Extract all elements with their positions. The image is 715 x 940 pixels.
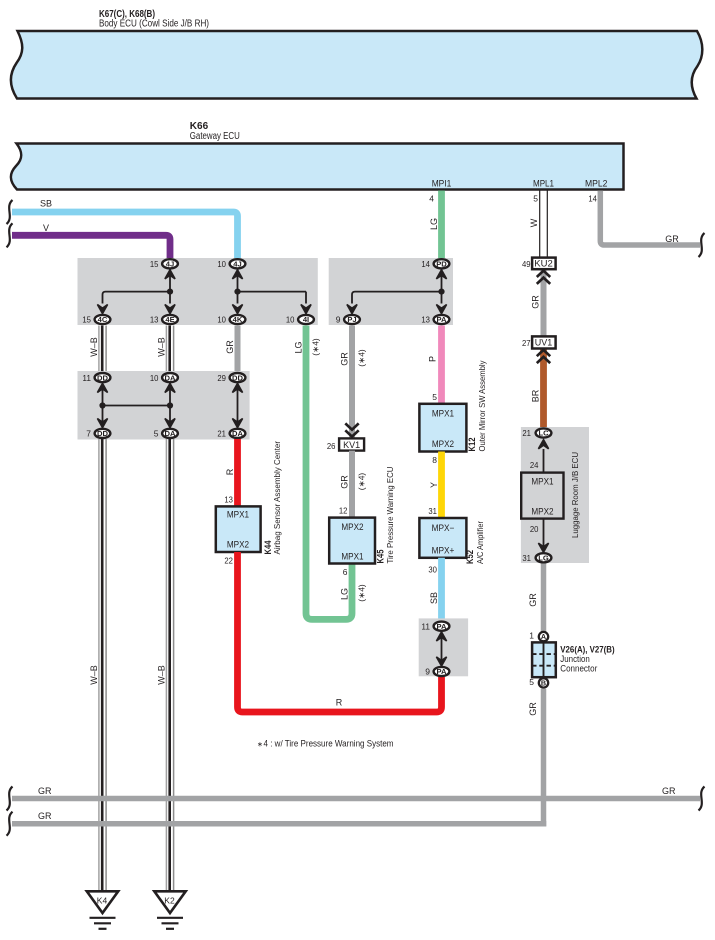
wire GR bus 2 — [7, 811, 547, 836]
svg-text:49: 49 — [522, 259, 531, 269]
wire V — [7, 223, 171, 259]
svg-text:9: 9 — [336, 315, 341, 325]
connector PA pin 13 — [421, 315, 449, 325]
svg-text:MPI1: MPI1 — [432, 178, 452, 188]
svg-text:GR: GR — [340, 352, 350, 366]
svg-text:PA: PA — [437, 667, 448, 676]
svg-text:LG: LG — [340, 588, 350, 600]
svg-text:4J: 4J — [166, 260, 174, 269]
svg-text:MPX2: MPX2 — [341, 522, 363, 532]
svg-text:V26(A), V27(B): V26(A), V27(B) — [560, 644, 614, 654]
wire SB (K52 to PA) — [438, 558, 445, 621]
svg-text:7: 7 — [86, 429, 91, 439]
ECU K45 Tire Pressure Warning ECU — [329, 467, 395, 564]
svg-text:1: 1 — [529, 631, 534, 641]
connector DA pin 5 — [154, 429, 178, 439]
svg-text:LG: LG — [294, 341, 304, 353]
svg-text:4 : w/ Tire Pressure Warning S: 4 : w/ Tire Pressure Warning System — [264, 738, 394, 748]
wire GR (4K to DD) — [235, 326, 241, 373]
wire W-B (DA to ground K2) — [166, 439, 173, 891]
svg-text:4J: 4J — [233, 260, 241, 269]
svg-text:5: 5 — [529, 677, 534, 687]
ECU K44 Airbag Sensor Assembly Center — [216, 441, 282, 555]
svg-text:Airbag Sensor Assembly Center: Airbag Sensor Assembly Center — [272, 441, 282, 555]
svg-text:13: 13 — [224, 495, 233, 505]
wire GR (PJ to KV1) — [349, 326, 355, 439]
svg-text:5: 5 — [154, 429, 159, 439]
svg-text:Luggage Room J/B ECU: Luggage Room J/B ECU — [570, 452, 580, 538]
svg-text:SB: SB — [40, 199, 52, 209]
svg-text:15: 15 — [150, 259, 159, 269]
svg-text:GR: GR — [340, 475, 350, 489]
svg-text:MPX2: MPX2 — [531, 507, 553, 517]
svg-text:12: 12 — [339, 506, 348, 516]
svg-text:15: 15 — [82, 315, 91, 325]
connector LG pin 31 — [522, 553, 551, 563]
svg-text:GR: GR — [662, 786, 676, 796]
svg-text:11: 11 — [82, 373, 91, 383]
svg-text:A/C Amplifier: A/C Amplifier — [475, 521, 485, 564]
svg-text:4C: 4C — [98, 315, 108, 324]
svg-text:W–B: W–B — [157, 665, 167, 685]
wire W-B (4C to DD) — [99, 326, 106, 373]
svg-text:31: 31 — [522, 553, 531, 563]
svg-text:31: 31 — [428, 506, 437, 516]
connector DD pin 29 — [217, 373, 245, 383]
svg-text:5: 5 — [432, 392, 437, 402]
svg-text:MPX2: MPX2 — [227, 539, 249, 549]
svg-text:26: 26 — [327, 441, 336, 451]
svg-text:10: 10 — [286, 315, 295, 325]
svg-text:GR: GR — [38, 811, 52, 821]
ECU K66 Gateway ECU — [11, 121, 624, 190]
node LC to MPX box — [538, 440, 548, 473]
svg-text:LG: LG — [429, 218, 439, 230]
connector 4C pin 15 — [82, 315, 110, 325]
ground K4 — [87, 891, 118, 929]
junction block D (shaded, PA-PA) — [419, 618, 468, 676]
svg-text:10: 10 — [217, 315, 226, 325]
connector PA pin 11 — [421, 621, 449, 631]
connector A pin 1 — [529, 631, 548, 642]
svg-text:GR: GR — [531, 295, 541, 309]
svg-text:W–B: W–B — [89, 665, 99, 685]
svg-text:13: 13 — [421, 315, 430, 325]
svg-text:MPL2: MPL2 — [585, 178, 608, 188]
svg-text:20: 20 — [530, 524, 539, 534]
svg-text:Body ECU (Cowl Side J/B RH): Body ECU (Cowl Side J/B RH) — [99, 18, 209, 29]
svg-text:K45: K45 — [375, 550, 385, 564]
connector UV1 pin 27 — [522, 336, 556, 363]
svg-text:DD: DD — [97, 429, 108, 438]
svg-text:GR: GR — [225, 340, 235, 354]
wire GR (LG to A) — [541, 564, 547, 632]
svg-text:11: 11 — [421, 621, 430, 631]
connector PD pin 14 — [421, 259, 449, 269]
svg-text:∗: ∗ — [257, 739, 263, 748]
svg-text:MPX−: MPX− — [432, 523, 455, 533]
svg-text:K4: K4 — [97, 896, 108, 906]
wire LG (4I to K45) — [306, 326, 352, 620]
svg-text:Tire Pressure Warning ECU: Tire Pressure Warning ECU — [385, 467, 395, 564]
svg-text:5: 5 — [533, 194, 538, 204]
svg-text:GR: GR — [528, 702, 538, 716]
svg-text:(∗4): (∗4) — [357, 584, 367, 602]
svg-text:21: 21 — [522, 428, 531, 438]
svg-text:8: 8 — [432, 455, 437, 465]
svg-text:24: 24 — [530, 460, 539, 470]
svg-text:LC: LC — [538, 429, 549, 438]
svg-text:UV1: UV1 — [535, 338, 553, 348]
svg-text:PJ: PJ — [347, 315, 356, 324]
svg-text:K12: K12 — [467, 438, 477, 452]
wire Y (K12 to K52) — [438, 452, 445, 519]
svg-text:GR: GR — [665, 234, 679, 244]
node link D — [436, 632, 446, 666]
svg-text:W–B: W–B — [157, 337, 167, 357]
junction block C (shaded) — [329, 258, 453, 325]
svg-text:DA: DA — [232, 429, 243, 438]
node MPX box to LG — [538, 519, 548, 553]
junction block B (shaded) — [78, 371, 250, 440]
svg-text:MPX1: MPX1 — [227, 509, 249, 519]
svg-text:4I: 4I — [303, 315, 309, 324]
node link B-right — [232, 383, 242, 428]
svg-text:9: 9 — [425, 667, 430, 677]
svg-text:KV1: KV1 — [343, 440, 360, 450]
svg-text:13: 13 — [150, 315, 159, 325]
svg-text:KU2: KU2 — [534, 259, 553, 269]
svg-text:V: V — [43, 223, 49, 233]
wire P (PA to K12) — [438, 326, 445, 404]
svg-text:6: 6 — [343, 567, 348, 577]
svg-text:21: 21 — [217, 429, 226, 439]
svg-text:PA: PA — [437, 315, 448, 324]
svg-text:(∗4): (∗4) — [357, 473, 367, 491]
svg-text:MPX1: MPX1 — [341, 552, 363, 562]
connector DA pin 10 — [150, 373, 178, 383]
wire W (MPL1 to KU2) — [529, 191, 547, 259]
wire GR (B to bus) — [541, 689, 547, 827]
node bus A-right — [232, 270, 311, 314]
svg-text:10: 10 — [150, 373, 159, 383]
svg-text:(∗4): (∗4) — [311, 338, 321, 356]
svg-text:10: 10 — [217, 259, 226, 269]
svg-text:SB: SB — [429, 592, 439, 604]
connector B pin 5 — [529, 677, 548, 688]
svg-text:Outer Mirror SW Assembly: Outer Mirror SW Assembly — [477, 360, 487, 452]
svg-text:MPX2: MPX2 — [432, 439, 454, 449]
connector 4J pin 15 — [150, 259, 178, 269]
svg-text:4: 4 — [429, 194, 434, 204]
svg-text:MPX1: MPX1 — [432, 409, 454, 419]
svg-text:PD: PD — [436, 260, 447, 269]
svg-text:27: 27 — [522, 338, 531, 348]
connector PA pin 9 — [425, 667, 449, 677]
svg-text:MPX+: MPX+ — [432, 546, 455, 556]
svg-text:4E: 4E — [165, 315, 174, 324]
svg-text:R: R — [336, 698, 343, 708]
ground K2 — [154, 891, 185, 929]
wire R (DA to K44) — [234, 439, 241, 506]
svg-text:DA: DA — [165, 373, 176, 382]
connector DD pin 7 — [86, 429, 110, 439]
svg-text:BR: BR — [531, 389, 541, 402]
svg-text:4K: 4K — [233, 315, 243, 324]
MPX box (Luggage Room J/B ECU) — [521, 473, 563, 519]
svg-text:GR: GR — [38, 786, 52, 796]
svg-text:W: W — [529, 218, 539, 227]
ECU K12 Outer Mirror SW Assembly — [419, 360, 487, 452]
ECU Luggage Room J/B ECU (shaded) — [521, 427, 589, 563]
junction block A (shaded) — [78, 258, 318, 325]
svg-text:K2: K2 — [164, 896, 175, 906]
connector KV1 pin 26 — [327, 423, 364, 451]
node bus A-left — [97, 270, 175, 314]
svg-text:A: A — [541, 632, 546, 641]
svg-text:GR: GR — [528, 593, 538, 607]
svg-text:Y: Y — [429, 482, 439, 488]
svg-text:PA: PA — [437, 622, 448, 631]
wire GR bus 1 — [7, 786, 705, 811]
svg-text:P: P — [428, 356, 438, 362]
wire W-B (DD to ground K4) — [99, 439, 106, 891]
svg-text:14: 14 — [421, 259, 430, 269]
svg-text:W–B: W–B — [89, 337, 99, 357]
wire W-B (4E to DA) — [166, 326, 173, 373]
ECU K67(C), K68(B) Body ECU (Cowl Side J/B RH) — [11, 9, 702, 99]
wire LG (MPI1 to PD) — [438, 191, 445, 259]
svg-text:(∗4): (∗4) — [357, 349, 367, 367]
svg-text:MPL1: MPL1 — [533, 178, 554, 188]
connector 4I pin 10 — [286, 315, 314, 325]
svg-text:14: 14 — [588, 194, 597, 204]
connector 4J pin 10 — [217, 259, 245, 269]
connector PJ pin 9 — [336, 315, 360, 325]
ECU K52 A/C Amplifier — [419, 518, 485, 564]
svg-text:29: 29 — [217, 373, 226, 383]
svg-text:LG: LG — [538, 554, 549, 563]
wire BR (UV1 to LC) — [540, 349, 547, 429]
connector 4E pin 13 — [150, 315, 178, 325]
svg-text:Gateway ECU: Gateway ECU — [190, 131, 240, 142]
svg-text:DD: DD — [97, 373, 108, 382]
connector DD pin 11 — [82, 373, 110, 383]
svg-text:Connector: Connector — [560, 663, 597, 673]
svg-text:DA: DA — [165, 429, 176, 438]
svg-text:MPX1: MPX1 — [531, 477, 553, 487]
wire GR (KU2 to UV1) — [541, 269, 547, 336]
wire GR (MPL2) — [600, 191, 704, 258]
svg-text:B: B — [541, 679, 546, 688]
connector LC pin 21 — [522, 428, 551, 438]
junction connector V26(A), V27(B) — [532, 642, 615, 677]
svg-text:DD: DD — [232, 373, 243, 382]
svg-text:K52: K52 — [465, 550, 475, 564]
wire SB — [7, 199, 238, 259]
svg-text:30: 30 — [428, 565, 437, 575]
connector KU2 pin 49 — [522, 258, 556, 284]
svg-text:R: R — [225, 468, 235, 475]
svg-text:22: 22 — [224, 556, 233, 566]
node bus B — [97, 383, 175, 428]
wire R (K44 to PA) — [238, 552, 442, 712]
connector 4K pin 10 — [217, 315, 245, 325]
wire GR (KV1 to K45) — [349, 451, 355, 518]
node bus C — [347, 270, 447, 314]
connector DA pin 21 — [217, 429, 245, 439]
